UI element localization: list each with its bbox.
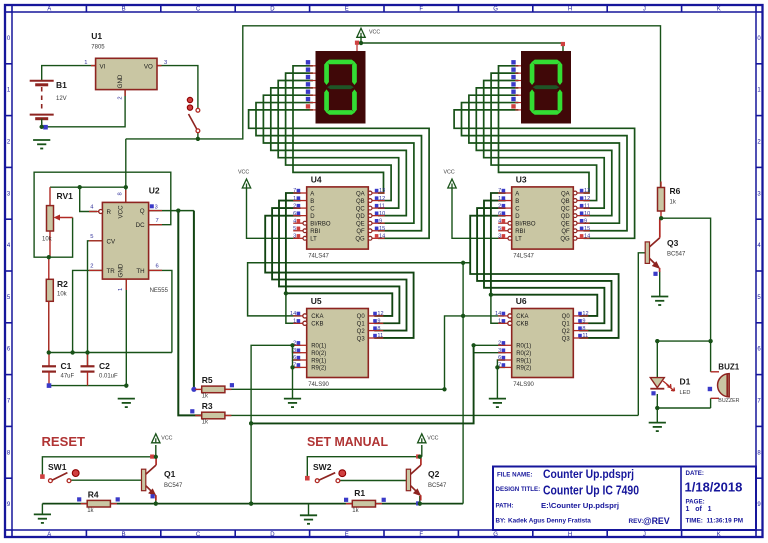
ground below U6 [489,399,506,408]
svg-text:1: 1 [293,319,296,325]
switch SW1 [40,470,79,483]
svg-text:U2: U2 [149,186,160,196]
ground below SW2 [300,515,317,524]
counter U6 74LS90 [498,309,588,378]
svg-text:VCC: VCC [444,170,455,176]
wire switch to VCC rail [198,26,661,187]
decoder U3 74LS47 [498,187,590,249]
svg-text:3: 3 [498,348,501,354]
wire Q net to R5 [193,211,195,390]
svg-text:U4: U4 [311,174,322,184]
timer U2 NE555 [89,190,162,290]
wire SW2 to Q2 collector top [307,457,420,477]
left 7-segment display [310,66,316,110]
wire 555 GND pin to ground [125,279,127,386]
wire 555 CV to cap rail [88,241,103,366]
wire VCC to Q1 collector [155,445,157,457]
svg-text:BC547: BC547 [164,483,183,489]
wire reset bottom rail [42,503,463,505]
wire 555 Q output [149,210,194,212]
svg-text:1: 1 [293,196,296,202]
svg-text:LT: LT [515,237,522,243]
power switch [187,97,200,132]
svg-text:7: 7 [498,188,501,194]
capacitor C2 [81,353,95,386]
RESET title [42,434,86,449]
svg-text:QA: QA [356,191,365,197]
svg-text:R0(1): R0(1) [516,344,531,350]
R5 terminal square [230,383,234,387]
R3 label [202,401,213,426]
svg-text:9: 9 [584,218,587,224]
Q2 label [428,469,447,489]
regulator U1 7805 [91,58,162,96]
svg-text:RESET: RESET [42,434,86,449]
svg-text:BY:: BY: [496,518,506,525]
svg-text:VI: VI [100,63,106,70]
svg-text:1k: 1k [87,508,94,514]
svg-text:LT: LT [310,237,317,243]
svg-text:VCC: VCC [369,29,380,35]
battery label B1 12V [56,80,67,102]
svg-text:R4: R4 [88,490,99,500]
svg-text:B: B [515,199,519,205]
svg-text:VCC: VCC [427,435,438,441]
BUZ1 state square [708,387,712,391]
svg-text:D: D [270,7,275,13]
svg-text:H: H [568,7,572,13]
svg-text:13: 13 [379,188,385,194]
svg-text:C: C [196,532,201,538]
svg-text:R6: R6 [670,186,681,196]
U5 label [308,296,329,388]
svg-text:QG: QG [355,237,365,243]
svg-text:R0(2): R0(2) [516,351,531,357]
svg-text:10: 10 [379,211,385,217]
svg-text:RBI: RBI [515,229,525,235]
wire VCC to U3 LT [452,188,504,238]
wire battery to U1 VI [42,66,96,81]
svg-text:R3: R3 [202,401,213,411]
svg-text:1k: 1k [352,508,359,514]
svg-text:BUZZER: BUZZER [718,398,739,404]
svg-text:C1: C1 [61,361,72,371]
wire cap top rail [49,352,172,354]
counter U5 74LS90 [293,309,383,378]
R3 terminal square [190,409,194,413]
wire U5 reset pins to ground rail [251,345,300,503]
ground below battery [33,140,50,149]
VCC arrow above displays [357,28,381,37]
U2 label [149,186,169,295]
svg-text:U6: U6 [516,296,527,306]
R5 label [202,375,213,400]
ground below SW1 [34,514,51,523]
svg-text:E:\Counter Up.pdsprj: E:\Counter Up.pdsprj [541,501,619,510]
svg-text:VCC: VCC [118,205,125,219]
svg-text:74LS47: 74LS47 [308,254,329,260]
R6 label [670,186,681,206]
svg-text:G: G [493,7,498,13]
wire U6 reset pins join [474,344,506,346]
svg-text:6: 6 [498,211,501,217]
svg-text:3: 3 [293,348,296,354]
wire right display segment fan [499,66,590,193]
svg-text:Q1: Q1 [562,322,571,328]
svg-text:A: A [310,191,314,197]
svg-text:K: K [717,7,721,13]
wire R6 to buzzer rail [661,218,710,341]
wire SW1 to Q1 base [71,479,142,481]
D1 state square [651,391,655,395]
svg-text:D: D [515,214,520,220]
svg-text:12: 12 [377,311,383,317]
svg-text:Q0: Q0 [357,314,366,320]
svg-text:74LS90: 74LS90 [513,382,534,388]
wire set-manual ground stem [308,504,310,516]
left display pin state squares [306,60,310,109]
svg-text:Counter Up IC 7490: Counter Up IC 7490 [543,483,639,497]
svg-text:TR: TR [107,268,116,275]
wire cascade U6 Q3 to U5 CKA [248,263,471,316]
svg-text:SW2: SW2 [313,462,332,472]
svg-text:TH: TH [136,268,144,275]
svg-text:U1: U1 [91,31,102,41]
svg-text:5: 5 [90,234,93,240]
wire U1 VO to switch [157,66,198,109]
resistor R1 [346,500,382,507]
U6 pin numbers [495,311,589,369]
potentiometer RV1 [47,206,73,231]
Q3 emitter state square [653,272,657,276]
resistor R2 [46,279,53,352]
U1 pin numbers [84,60,167,100]
wire R5 output to U6 clock [225,388,445,390]
svg-text:14: 14 [495,311,501,317]
svg-text:4: 4 [293,218,296,224]
svg-text:U3: U3 [516,174,527,184]
svg-text:E: E [345,532,349,538]
svg-text:1: 1 [498,196,501,202]
svg-text:QE: QE [561,222,570,228]
wire U6 outputs to U3 inputs staircase [491,193,597,316]
svg-text:NE555: NE555 [150,288,169,294]
C1 label [61,361,75,380]
svg-text:PAGE:: PAGE: [686,499,705,506]
svg-text:0.01uF: 0.01uF [99,374,118,380]
U1 label [91,31,105,51]
VCC arrow for U4 LT [238,170,251,189]
svg-text:3: 3 [164,60,167,66]
svg-text:2: 2 [293,203,296,209]
svg-text:G: G [493,532,498,538]
battery B1 [30,81,54,130]
svg-text:GND: GND [117,74,124,88]
svg-text:12: 12 [584,196,590,202]
svg-text:14: 14 [584,234,590,240]
transistor Q3 BC547 [645,219,660,272]
svg-text:R5: R5 [202,375,213,385]
wire Q net to R3 [178,211,202,416]
svg-text:R9(1): R9(1) [516,358,531,364]
svg-text:QC: QC [356,206,366,212]
wire U5 R9 pins to ground [293,345,301,360]
svg-text:Q: Q [140,208,145,215]
Q1 label [164,469,183,489]
svg-text:B: B [122,532,126,538]
LED D1 [650,378,674,391]
svg-text:14: 14 [379,234,385,240]
junction dots overlay [40,41,713,506]
svg-text:QE: QE [356,222,365,228]
svg-text:RV1: RV1 [57,191,74,201]
svg-text:10k: 10k [42,237,53,243]
svg-text:R1: R1 [354,488,365,498]
svg-text:C2: C2 [99,361,110,371]
wire 555 TR to cap rail [73,270,103,352]
svg-text:6: 6 [498,355,501,361]
svg-text:TIME: 11:36:19 PM: TIME: 11:36:19 PM [686,518,744,525]
svg-text:R0(2): R0(2) [311,351,326,357]
svg-text:Q3: Q3 [357,336,366,342]
wire buzzer pins [710,341,712,372]
Q1 emitter square [151,494,155,498]
svg-text:15: 15 [584,226,590,232]
wire 555 TH to cap rail [149,270,172,352]
svg-text:10: 10 [584,211,590,217]
svg-text:GND: GND [118,263,125,277]
SW2 label [313,462,332,472]
wire Q2 emitter to rail [419,496,421,504]
svg-text:8: 8 [118,192,124,195]
svg-text:15: 15 [379,226,385,232]
svg-text:B1: B1 [56,80,67,90]
svg-text:Q3: Q3 [667,238,679,248]
svg-text:11: 11 [379,203,385,209]
wire VCC to Q2 collector [421,445,423,457]
svg-text:CKA: CKA [516,314,528,320]
svg-text:SW1: SW1 [48,462,67,472]
R2 label [57,279,68,298]
svg-text:8: 8 [377,326,380,332]
svg-text:7: 7 [293,188,296,194]
svg-text:2: 2 [118,96,124,99]
svg-text:LED: LED [680,390,691,396]
right 7-segment display [515,66,521,110]
svg-text:R2: R2 [57,279,68,289]
svg-text:E: E [345,7,349,13]
Q2 emitter square [416,501,420,505]
svg-text:A: A [47,532,51,538]
wire RV1 top rail to 555 reset [50,186,126,188]
svg-text:QG: QG [560,237,570,243]
svg-text:DESIGN TITLE:: DESIGN TITLE: [496,486,541,493]
svg-text:BUZ1: BUZ1 [718,362,739,371]
svg-text:9: 9 [377,319,380,325]
transistor Q2 BC547 [406,458,421,501]
VCC arrow for Q1 [152,434,173,443]
svg-text:6: 6 [293,355,296,361]
R1 terminal squares [344,498,386,502]
RV1 label [42,191,73,243]
svg-text:F: F [419,7,423,13]
svg-text:BI/RBO: BI/RBO [310,222,331,228]
svg-text:C: C [196,7,201,13]
Q2 collector square [416,454,420,458]
ground below D1 [649,423,666,432]
svg-text:@REV: @REV [643,516,670,526]
SW1 label [48,462,67,472]
svg-text:CKB: CKB [516,322,528,328]
svg-text:1/18/2018: 1/18/2018 [685,480,743,495]
wire U5 Q0 feedback to CKB [286,293,300,323]
SET MANUAL title [307,434,388,449]
svg-text:R0(1): R0(1) [311,344,326,350]
svg-text:4: 4 [498,218,501,224]
wire cap bottom ground rail [49,385,126,387]
wire reset ground stem [41,504,43,515]
svg-text:6: 6 [156,263,159,269]
wire set-manual vertical to cascade line [462,263,464,504]
wire VCC to U4 LT [247,188,300,238]
R1 label [352,488,365,514]
svg-text:DATE:: DATE: [686,470,704,477]
svg-text:1: 1 [84,60,87,66]
svg-text:R9(2): R9(2) [311,366,326,372]
ground below U5 [284,399,301,408]
svg-text:1: 1 [498,319,501,325]
svg-text:1k: 1k [670,200,677,206]
svg-text:Q2: Q2 [428,469,440,479]
svg-text:74LS90: 74LS90 [308,382,329,388]
resistor R6 [658,182,665,218]
svg-text:9: 9 [582,319,585,325]
svg-text:A: A [515,191,519,197]
svg-text:QF: QF [561,229,570,235]
svg-text:VCC: VCC [238,170,249,176]
svg-text:Q3: Q3 [562,336,571,342]
svg-text:U5: U5 [311,296,322,306]
svg-text:Q2: Q2 [357,329,366,335]
svg-text:12: 12 [379,196,385,202]
svg-text:11: 11 [582,333,588,339]
svg-text:1k: 1k [202,420,209,426]
svg-text:C: C [515,206,520,212]
svg-text:3: 3 [293,234,296,240]
svg-text:D: D [270,532,275,538]
D1 label [680,377,691,397]
svg-text:Counter Up.pdsprj: Counter Up.pdsprj [543,467,634,481]
svg-text:74LS47: 74LS47 [513,254,534,260]
wire battery minus to U1 GND [42,90,125,127]
svg-text:14: 14 [290,311,296,317]
svg-text:3: 3 [498,234,501,240]
R4 label [87,490,99,514]
svg-text:10k: 10k [57,292,68,298]
svg-text:Q1: Q1 [164,469,176,479]
svg-text:FILE NAME:: FILE NAME: [497,471,532,478]
U4 pin numbers [293,188,385,239]
wire left display segment fan [293,66,384,193]
svg-text:1: 1 [118,288,124,291]
wire R2 top stub [48,257,50,279]
decoder U4 74LS47 [293,187,385,249]
svg-text:12V: 12V [56,96,67,102]
buzzer BUZ1 [711,372,730,399]
svg-text:Q2: Q2 [562,329,571,335]
capacitor C1 [42,353,56,388]
wire LED bottom rail to ground [656,394,658,423]
svg-text:B: B [122,7,126,13]
U4 label [308,174,329,259]
svg-text:Q0: Q0 [562,314,571,320]
svg-text:D1: D1 [680,377,691,387]
svg-text:BI/RBO: BI/RBO [515,222,536,228]
svg-text:J: J [643,532,646,538]
svg-text:C: C [310,206,315,212]
wire VCC rail to U2 VCC pin 8 [126,138,198,140]
svg-text:3: 3 [155,205,158,211]
svg-text:CV: CV [107,238,116,245]
svg-text:8: 8 [582,326,585,332]
svg-text:QB: QB [356,199,365,205]
svg-text:B: B [310,199,314,205]
svg-text:REV:: REV: [629,518,644,525]
wire R2 bottom to C1 [48,301,50,352]
VCC arrow for U3 LT [444,170,457,189]
svg-text:SET MANUAL: SET MANUAL [307,434,388,449]
svg-text:QA: QA [561,191,570,197]
svg-text:RBI: RBI [310,229,320,235]
svg-text:1 of 1: 1 of 1 [686,506,712,513]
wire RV1 wiper to R2 top node [49,218,73,258]
svg-text:Kadek Agus Denny Fratista: Kadek Agus Denny Fratista [508,518,591,525]
resistor R5 [195,386,231,393]
svg-text:47uF: 47uF [61,374,75,380]
Q1 collector square [150,455,154,459]
wire R3 output to Q3 base [225,414,638,416]
svg-text:5: 5 [293,226,296,232]
svg-text:13: 13 [584,188,590,194]
svg-text:F: F [419,532,423,538]
switch SW2 [305,470,346,483]
svg-text:1k: 1k [202,394,209,400]
wire display VCC feed [361,43,563,51]
svg-text:6: 6 [293,211,296,217]
C2 label [99,361,118,380]
svg-text:QB: QB [561,199,570,205]
U2 Q state square [150,204,158,210]
svg-text:R9(1): R9(1) [311,358,326,364]
wire LED buzzer top rail [657,340,710,342]
wire U6 Q0 feedback to CKB [491,295,505,324]
svg-text:VO: VO [144,63,153,70]
svg-text:BC547: BC547 [428,483,447,489]
svg-text:Q1: Q1 [357,322,366,328]
BUZ1 label [718,362,739,404]
U6 label [513,296,534,388]
title block [493,467,756,531]
svg-text:DC: DC [136,222,145,229]
svg-text:CKB: CKB [311,322,323,328]
svg-text:7: 7 [156,218,159,224]
svg-text:2: 2 [498,203,501,209]
svg-text:QD: QD [356,214,366,220]
svg-text:PATH:: PATH: [496,503,514,510]
svg-text:BC547: BC547 [667,252,686,258]
svg-text:7805: 7805 [91,45,105,51]
svg-text:R9(2): R9(2) [516,366,531,372]
